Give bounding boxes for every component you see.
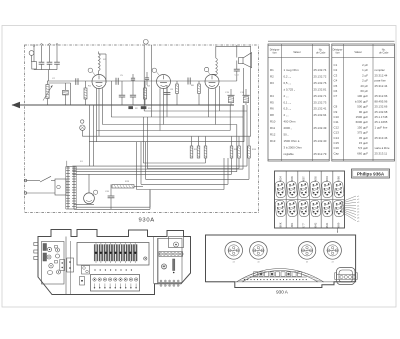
svg-text:2 µF: 2 µF [362, 73, 368, 77]
svg-text:25.312.44: 25.312.44 [375, 73, 388, 77]
svg-text:R8: R8 [270, 113, 274, 117]
svg-text:25.132.72: 25.132.72 [314, 74, 327, 78]
svg-text:50 „: 50 „ [284, 133, 289, 137]
svg-text:25.312.79: 25.312.79 [314, 152, 327, 156]
svg-text:25.312.44: 25.312.44 [375, 84, 388, 88]
svg-text:d3: d3 [332, 262, 334, 264]
svg-text:2 µF: 2 µF [362, 63, 368, 67]
svg-text:3 à 2000 Ohm: 3 à 2000 Ohm [284, 145, 303, 149]
svg-text:R4: R4 [270, 94, 274, 98]
svg-text:R3: R3 [270, 81, 274, 85]
svg-text:C11: C11 [334, 120, 339, 124]
svg-text:25.132.66: 25.132.66 [375, 105, 388, 109]
svg-text:C3: C3 [334, 73, 338, 77]
svg-text:0,2 „ „: 0,2 „ „ [284, 74, 292, 78]
svg-text:400 Ohm: 400 Ohm [284, 120, 296, 124]
svg-text:R10: R10 [270, 120, 276, 124]
svg-text:1 meg Ohm: 1 meg Ohm [284, 68, 300, 72]
svg-text:4699: 4699 [337, 222, 341, 228]
svg-text:2 µF: 2 µF [362, 79, 368, 83]
svg-text:varia à libre: varia à libre [375, 146, 390, 150]
svg-text:de Code: de Code [316, 52, 326, 55]
svg-text:Valeur: Valeur [293, 50, 301, 54]
svg-text:930A: 930A [139, 218, 155, 224]
svg-text:1 µF: 1 µF [362, 68, 368, 72]
svg-text:0,5 „ „: 0,5 „ „ [284, 81, 292, 85]
svg-text:d4: d4 [233, 262, 235, 264]
svg-text:25.1.1748: 25.1.1748 [375, 115, 388, 119]
svg-text:375 µµF: 375 µµF [357, 131, 368, 135]
svg-text:25.132.73: 25.132.73 [314, 100, 327, 104]
svg-text:R12: R12 [270, 133, 276, 137]
svg-text:C14: C14 [334, 136, 340, 140]
svg-text:25.132.40: 25.132.40 [314, 139, 327, 143]
svg-text:4695: 4695 [313, 176, 317, 182]
svg-text:25.1.1665: 25.1.1665 [375, 120, 388, 124]
svg-text:100 µµF: 100 µµF [357, 94, 368, 98]
svg-text:Cap: Cap [334, 151, 340, 155]
svg-text:Philips 936A: Philips 936A [357, 172, 385, 177]
svg-text:2000 „: 2000 „ [284, 126, 292, 130]
svg-text:4694: 4694 [325, 176, 329, 182]
svg-text:tion: tion [336, 52, 341, 55]
svg-text:25.313.11: 25.313.11 [375, 151, 388, 155]
svg-text:tion: tion [273, 52, 278, 55]
svg-text:88.495.96: 88.495.96 [375, 99, 388, 103]
svg-text:25.132.41: 25.132.41 [314, 107, 327, 111]
svg-text:4642: 4642 [313, 222, 317, 228]
svg-text:4687: 4687 [302, 176, 306, 182]
svg-text:± 0,725 „: ± 0,725 „ [284, 87, 295, 91]
svg-text:C16: C16 [334, 146, 340, 150]
svg-text:C7: C7 [334, 94, 338, 98]
svg-text:R1: R1 [270, 68, 274, 72]
svg-text:60 µF: 60 µF [361, 89, 369, 93]
svg-text:25.132.81: 25.132.81 [314, 87, 327, 91]
svg-text:25.132.94: 25.132.94 [314, 113, 327, 117]
svg-text:377*: 377* [302, 223, 306, 228]
svg-text:C2: C2 [334, 68, 338, 72]
svg-text:à 500 µµF: à 500 µµF [355, 99, 368, 103]
svg-text:4699: 4699 [290, 176, 294, 182]
svg-text:R2: R2 [270, 74, 274, 78]
svg-text:C1: C1 [334, 63, 338, 67]
svg-text:C9: C9 [334, 110, 338, 114]
svg-text:para-fixe: para-fixe [375, 79, 387, 83]
svg-text:4654: 4654 [278, 176, 282, 182]
svg-text:1500 µµF: 1500 µµF [356, 115, 369, 119]
svg-text:4641: 4641 [325, 222, 329, 228]
svg-text:C6: C6 [334, 89, 338, 93]
svg-text:2 „ „: 2 „ „ [284, 113, 289, 117]
svg-text:1861: 1861 [290, 222, 294, 228]
svg-text:25.312.96: 25.312.96 [375, 94, 388, 98]
svg-text:90 µµF: 90 µµF [359, 110, 368, 114]
svg-text:Valeur: Valeur [354, 50, 362, 54]
svg-text:25.132.71: 25.132.71 [314, 94, 327, 98]
svg-text:C13: C13 [334, 131, 340, 135]
svg-text:d4: d4 [257, 262, 259, 264]
svg-text:500 µµF: 500 µµF [357, 105, 368, 109]
svg-text:0,5 „ „: 0,5 „ „ [284, 107, 292, 111]
svg-text:R6: R6 [270, 107, 274, 111]
svg-text:C5: C5 [334, 84, 338, 88]
svg-text:C8: C8 [334, 105, 338, 109]
svg-text:930 A: 930 A [276, 290, 289, 295]
svg-text:25.132.49: 25.132.49 [314, 126, 327, 130]
svg-text:45 µµF: 45 µµF [359, 136, 368, 140]
svg-text:150 µµF: 150 µµF [357, 125, 368, 129]
svg-text:15 µµF: 15 µµF [359, 141, 368, 145]
svg-text:C15: C15 [334, 141, 340, 145]
svg-text:5,5 µµF: 5,5 µµF [358, 146, 368, 150]
svg-text:1500 Ohm à: 1500 Ohm à [284, 139, 300, 143]
svg-text:2 „ „: 2 „ „ [284, 94, 289, 98]
svg-text:d3: d3 [306, 262, 308, 264]
svg-text:C10: C10 [334, 115, 340, 119]
svg-text:1 µµF fixe: 1 µµF fixe [375, 125, 388, 129]
svg-text:0,1 „ „: 0,1 „ „ [284, 100, 292, 104]
svg-text:C12: C12 [334, 125, 340, 129]
svg-text:360K: 360K [278, 222, 282, 228]
svg-text:660 µµF: 660 µµF [357, 151, 368, 155]
svg-text:R11: R11 [270, 126, 275, 130]
svg-text:R13: R13 [270, 139, 276, 143]
svg-text:25.132.68: 25.132.68 [375, 110, 388, 114]
svg-text:6000 µµF: 6000 µµF [356, 120, 369, 124]
svg-text:25.132.76: 25.132.76 [314, 81, 327, 85]
svg-text:R5: R5 [270, 100, 274, 104]
svg-text:remplac: remplac [375, 68, 386, 72]
svg-text:réglable: réglable [284, 152, 295, 156]
svg-text:25.132.74: 25.132.74 [314, 68, 327, 72]
svg-text:20 µF: 20 µF [361, 84, 369, 88]
svg-text:C4: C4 [334, 79, 338, 83]
svg-text:25.313.46: 25.313.46 [375, 136, 388, 140]
svg-text:de Code: de Code [379, 52, 389, 55]
